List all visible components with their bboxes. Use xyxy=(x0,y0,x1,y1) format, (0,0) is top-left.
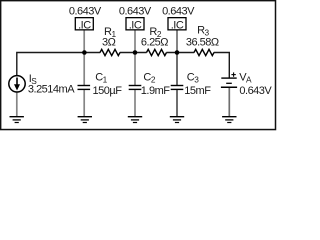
svg-text:.IC: .IC xyxy=(129,19,142,31)
svg-text:15mF: 15mF xyxy=(184,85,211,97)
current source IS circle xyxy=(9,76,25,92)
wire: C3 to ground xyxy=(176,90,178,117)
svg-text:6.25Ω: 6.25Ω xyxy=(141,36,168,48)
capacitor C1 plates xyxy=(78,85,91,87)
wire: gray stub .IC box2 to node B xyxy=(134,30,136,52)
resistor R1 zigzag xyxy=(100,49,120,55)
wire: gray stub .IC box1 to node A xyxy=(83,30,85,52)
svg-text:.IC: .IC xyxy=(78,19,91,31)
svg-text:0.643V: 0.643V xyxy=(119,5,152,17)
ground under VA xyxy=(222,117,236,123)
node B junction dot xyxy=(133,50,138,55)
svg-text:0.643V: 0.643V xyxy=(69,5,102,17)
wire: gray stub .IC box3 to node C xyxy=(176,30,178,52)
resistor R3 zigzag xyxy=(194,49,214,55)
ground under C3 xyxy=(170,117,184,123)
svg-text:1.9mF: 1.9mF xyxy=(141,85,170,97)
node C junction dot xyxy=(175,50,180,55)
svg-text:0.643V: 0.643V xyxy=(239,85,272,97)
.IC box 3 xyxy=(168,18,186,30)
svg-text:3Ω: 3Ω xyxy=(102,36,116,48)
wire: node B down to C2 xyxy=(134,53,136,86)
ground under C2 xyxy=(128,117,142,123)
wire: bus segment node2-R3 xyxy=(166,52,194,54)
border frame xyxy=(1,1,276,130)
svg-text:3.2514mA: 3.2514mA xyxy=(28,84,75,96)
wire: node C down to C3 xyxy=(176,53,178,86)
wire: C1 to ground xyxy=(83,90,85,117)
.IC box 1 xyxy=(75,18,93,30)
wire: bus segment node1-R2 xyxy=(120,52,147,54)
wire: bus right segment and corner down to VA xyxy=(214,53,230,78)
wire: node A down to C1 xyxy=(83,53,85,86)
svg-text:.IC: .IC xyxy=(171,19,184,31)
wire: IS bottom to ground xyxy=(16,92,18,117)
node A junction dot xyxy=(82,50,87,55)
plus sign of VA xyxy=(231,74,235,76)
.IC box 2 xyxy=(126,18,144,30)
svg-text:36.58Ω: 36.58Ω xyxy=(186,36,219,48)
svg-text:0.643V: 0.643V xyxy=(162,5,195,17)
wire: C2 to ground xyxy=(134,90,136,117)
resistor R2 zigzag xyxy=(147,49,167,55)
svg-text:150µF: 150µF xyxy=(93,85,123,97)
wire: top bus left segment xyxy=(17,53,100,76)
capacitor C2 plates xyxy=(129,85,142,87)
capacitor C3 plates xyxy=(171,85,184,87)
current source IS arrow xyxy=(16,78,18,85)
wire: VA bottom to ground xyxy=(228,88,230,117)
voltage source VA battery xyxy=(221,77,236,79)
ground under C1 xyxy=(78,117,92,123)
ground under IS xyxy=(10,117,24,123)
